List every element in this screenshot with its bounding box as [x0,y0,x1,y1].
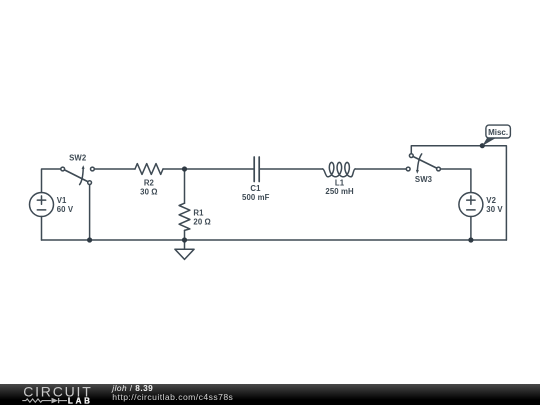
wire V1 bottom [41,217,43,241]
wire V2 bottom [470,217,472,241]
wire SW3 common up and top-right rail [411,146,506,240]
svg-text:30 Ω: 30 Ω [140,188,158,197]
node V2 bottom junction [468,237,473,242]
wire bottom rail [42,239,507,241]
wire L1 to SW3 [355,168,406,170]
wire SW2 to R2 [94,168,135,170]
svg-text:R1: R1 [193,209,204,218]
wire C1 to L1 [260,168,323,170]
voltage source V2 [459,193,483,217]
capacitor C1 [254,157,259,182]
svg-text:250 mH: 250 mH [325,187,354,196]
wire SW3 to V2 [440,169,471,193]
svg-text:20 Ω: 20 Ω [193,217,211,226]
logo diode triangle [52,398,59,404]
node SW2 bottom rail junction [87,237,92,242]
node Misc flag junction [480,143,485,148]
svg-text:L1: L1 [335,179,345,188]
footer meta text [112,384,462,405]
svg-text:LAB: LAB [68,397,93,405]
svg-text:SW3: SW3 [415,175,433,184]
resistor R2 [135,164,163,175]
switch SW2 [61,165,95,184]
svg-text:500 mF: 500 mF [242,193,270,202]
inductor L1 [323,162,356,176]
resistor R1 [179,203,190,230]
wire R1 bottom [184,230,186,240]
labels [57,154,504,227]
switch SW3 [406,154,440,174]
junction dots [87,143,485,243]
svg-text:V2: V2 [486,196,496,205]
svg-text:60 V: 60 V [57,205,74,214]
node R1/ground junction [182,237,187,242]
node R2/R1 junction [182,166,187,171]
flag Misc. [482,125,510,146]
svg-text:V1: V1 [57,196,67,205]
wire R1 top [184,169,186,203]
svg-text:Misc.: Misc. [488,128,508,137]
voltage source V1 [30,193,54,217]
wire SW2 bottom terminal down to bottom rail [89,185,91,241]
svg-text:SW2: SW2 [69,154,87,163]
wire top-left from V1 to SW2 [42,169,61,193]
svg-text:30 V: 30 V [486,205,503,214]
ground [175,240,194,259]
svg-text:R2: R2 [144,179,155,188]
footer bar [0,384,540,405]
wire R2 to C1 [163,168,254,170]
logo resistor-diode line [22,398,67,403]
svg-text:C1: C1 [250,184,261,193]
